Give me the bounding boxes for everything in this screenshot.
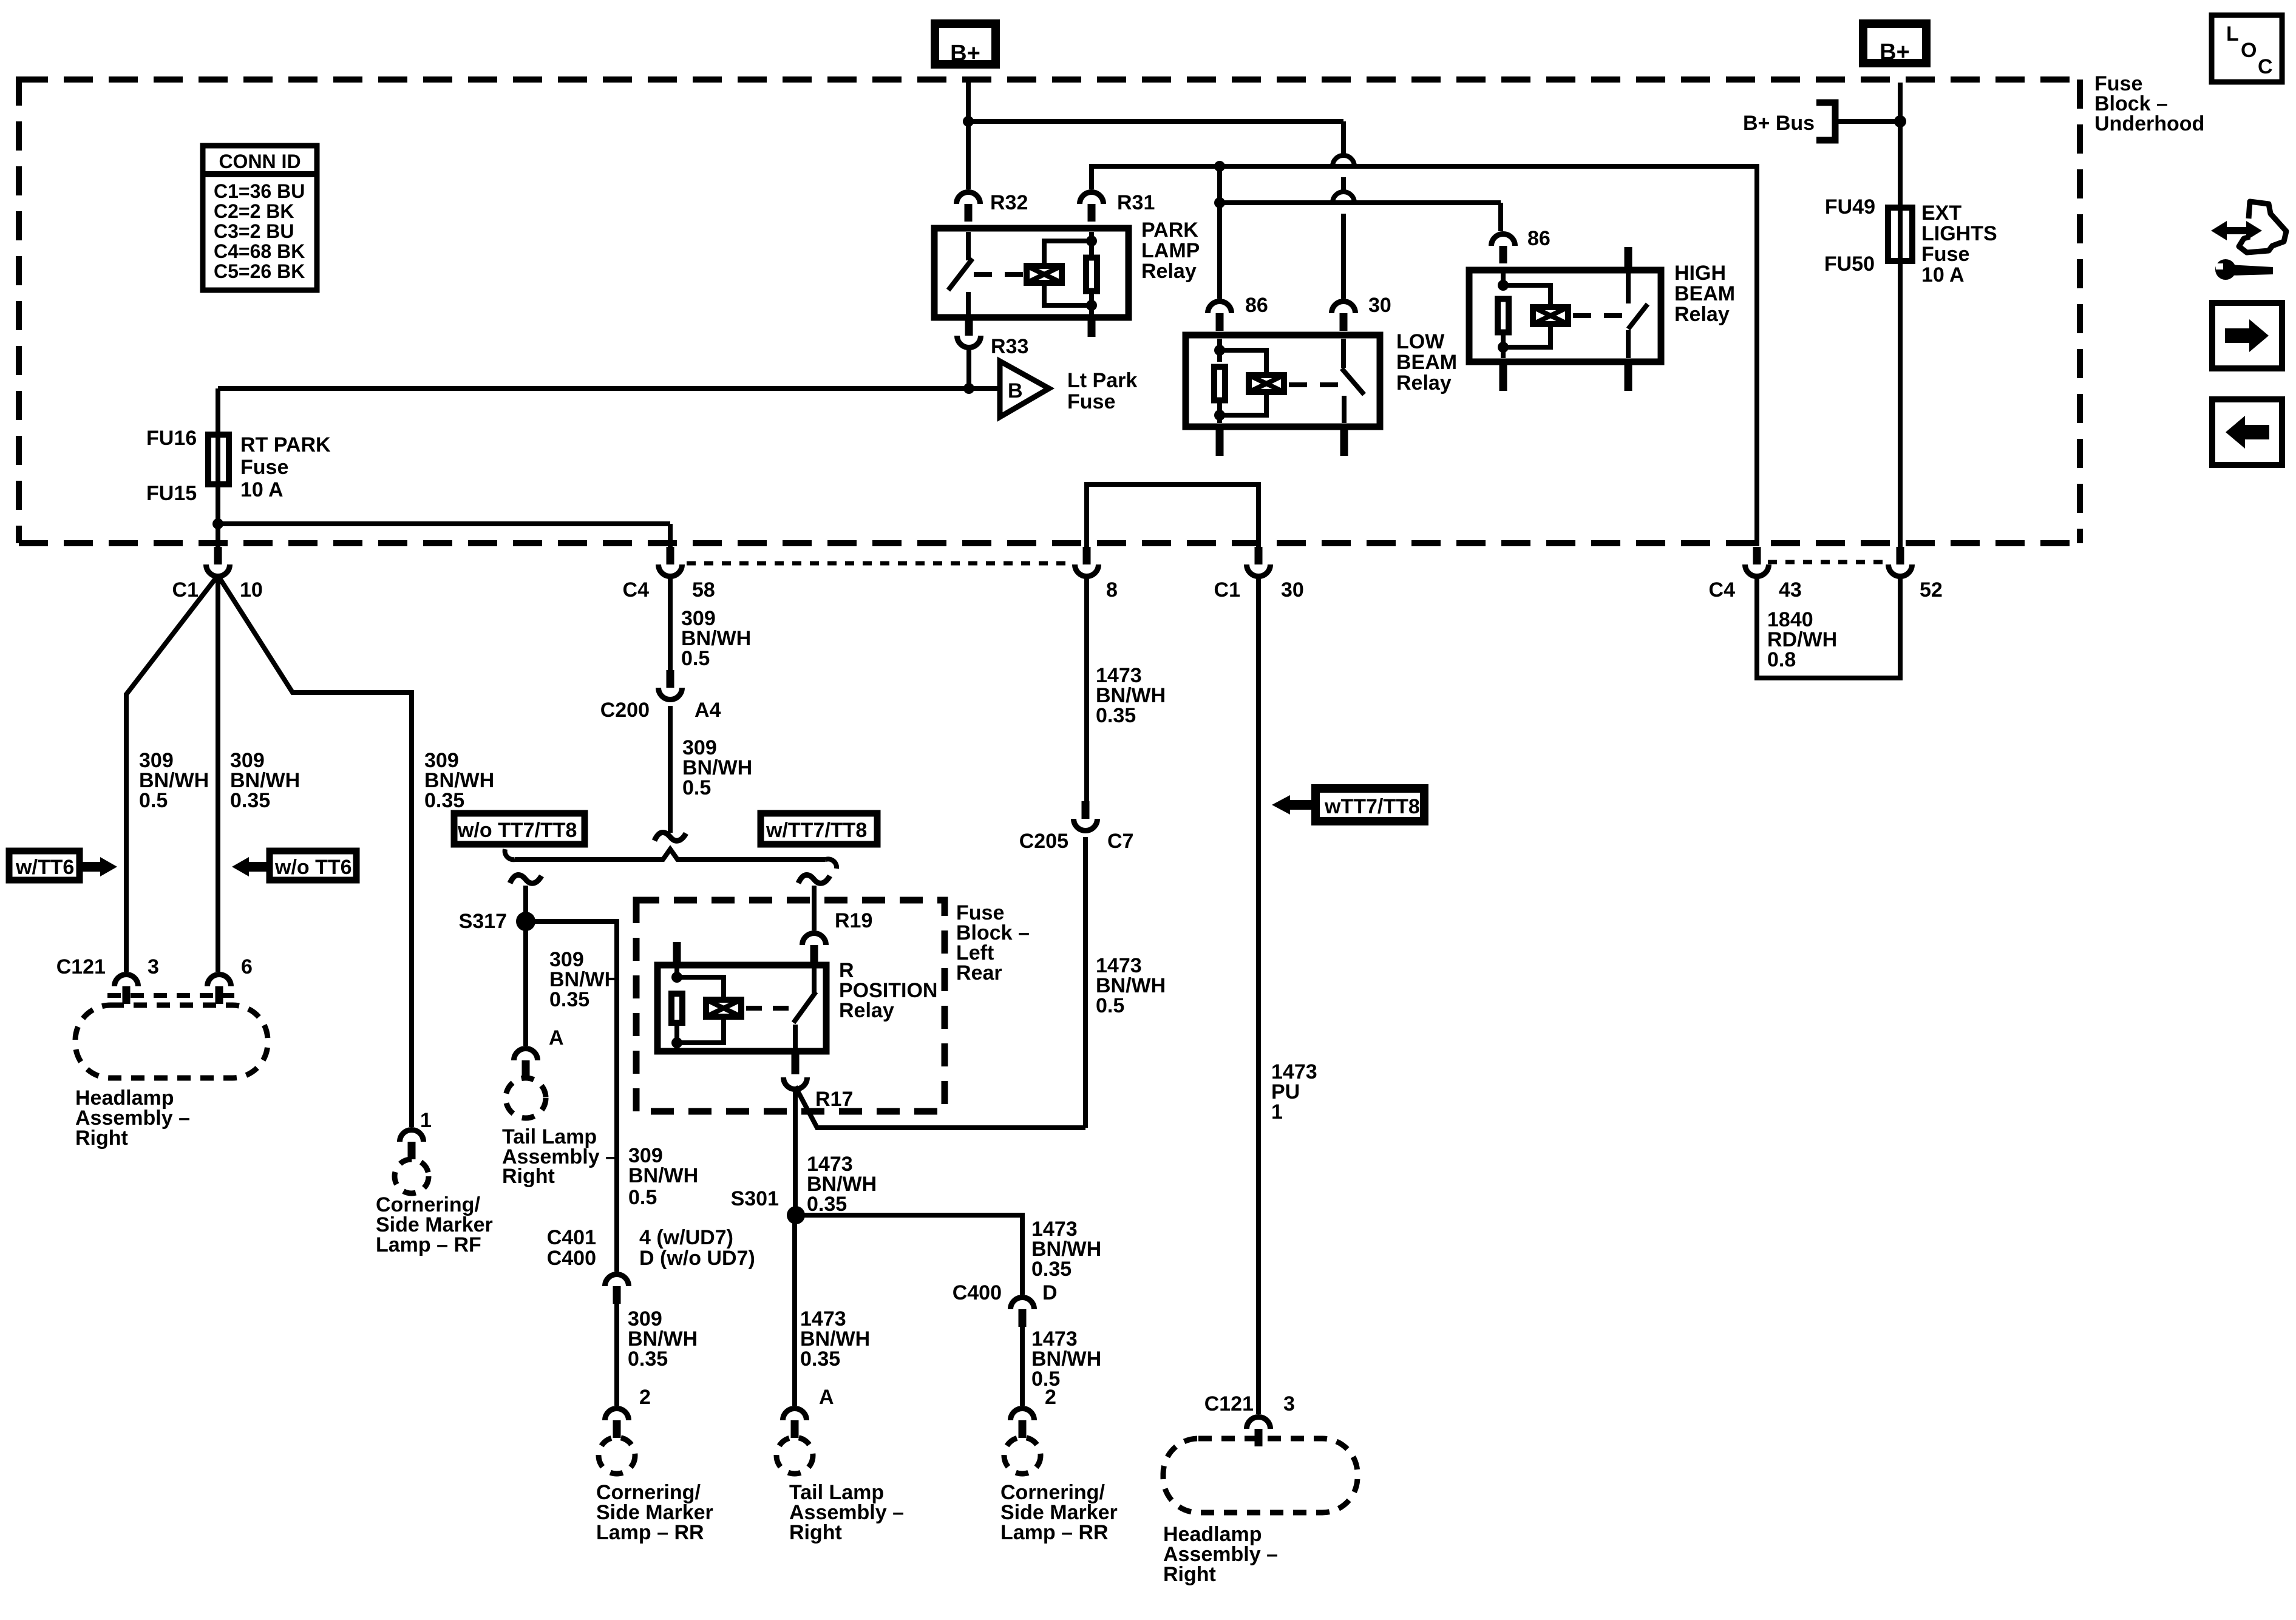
svg-text:10 A: 10 A	[240, 478, 284, 501]
svg-text:3: 3	[1283, 1392, 1295, 1415]
svg-text:S317: S317	[459, 910, 507, 933]
svg-text:FU49: FU49	[1825, 195, 1875, 219]
svg-text:R33: R33	[991, 335, 1028, 358]
svg-text:C4=68 BK: C4=68 BK	[214, 240, 305, 262]
svg-text:Relay: Relay	[839, 999, 894, 1022]
svg-text:HIGH: HIGH	[1674, 262, 1726, 285]
svg-text:86: 86	[1527, 227, 1550, 250]
svg-text:A: A	[819, 1386, 834, 1409]
svg-text:FU50: FU50	[1824, 252, 1875, 276]
svg-text:C1=36 BU: C1=36 BU	[214, 180, 305, 202]
svg-text:0.35: 0.35	[424, 789, 464, 812]
svg-text:4 (w/UD7): 4 (w/UD7)	[639, 1226, 733, 1249]
svg-text:C200: C200	[600, 699, 650, 722]
svg-text:Lamp – RR: Lamp – RR	[596, 1521, 704, 1544]
svg-text:A: A	[549, 1026, 564, 1049]
svg-text:10 A: 10 A	[1921, 263, 1965, 286]
svg-text:0.35: 0.35	[230, 789, 270, 812]
svg-text:B+: B+	[950, 41, 980, 66]
svg-text:L: L	[2226, 22, 2239, 46]
svg-text:0.35: 0.35	[807, 1193, 847, 1216]
svg-text:Underhood: Underhood	[2094, 112, 2204, 135]
svg-text:Relay: Relay	[1674, 303, 1730, 326]
svg-text:C4: C4	[1709, 578, 1736, 602]
svg-text:C5=26 BK: C5=26 BK	[214, 260, 305, 282]
svg-text:0.35: 0.35	[549, 988, 589, 1011]
svg-text:R17: R17	[815, 1088, 853, 1111]
svg-text:O: O	[2241, 39, 2257, 62]
svg-text:C401: C401	[547, 1226, 596, 1249]
svg-text:0.35: 0.35	[1031, 1258, 1072, 1281]
svg-text:FU15: FU15	[146, 482, 197, 505]
svg-text:6: 6	[241, 955, 253, 978]
svg-text:BEAM: BEAM	[1674, 282, 1735, 305]
svg-text:B: B	[1008, 379, 1023, 402]
svg-text:1: 1	[1271, 1100, 1283, 1123]
svg-text:43: 43	[1779, 578, 1802, 602]
svg-text:w/TT6: w/TT6	[15, 856, 74, 879]
svg-text:R31: R31	[1117, 191, 1155, 214]
svg-text:86: 86	[1245, 294, 1268, 317]
svg-text:LOW: LOW	[1396, 330, 1445, 353]
svg-text:C400: C400	[547, 1247, 596, 1270]
svg-text:C1: C1	[1214, 578, 1240, 602]
svg-text:3: 3	[148, 955, 159, 978]
svg-text:RT PARK: RT PARK	[240, 433, 331, 456]
svg-text:Fuse: Fuse	[1921, 243, 1969, 266]
svg-text:1: 1	[420, 1109, 432, 1132]
svg-text:Relay: Relay	[1141, 260, 1197, 283]
svg-text:C400: C400	[953, 1281, 1002, 1304]
svg-text:Right: Right	[1163, 1563, 1216, 1586]
svg-text:R19: R19	[835, 909, 872, 932]
svg-text:Fuse: Fuse	[240, 456, 288, 479]
svg-text:w/o TT6: w/o TT6	[274, 856, 352, 879]
svg-text:Fuse: Fuse	[1067, 390, 1115, 413]
svg-text:EXT: EXT	[1921, 202, 1961, 225]
svg-text:BEAM: BEAM	[1396, 351, 1457, 374]
svg-text:2: 2	[639, 1386, 651, 1409]
svg-text:C2=2 BK: C2=2 BK	[214, 200, 294, 222]
svg-text:FU16: FU16	[146, 427, 197, 450]
svg-text:C205: C205	[1019, 830, 1068, 853]
svg-text:B+ Bus: B+ Bus	[1743, 112, 1815, 135]
svg-text:R32: R32	[990, 191, 1028, 214]
svg-text:C4: C4	[623, 578, 650, 602]
svg-text:0.35: 0.35	[800, 1347, 840, 1371]
svg-text:2: 2	[1045, 1386, 1056, 1409]
svg-text:D (w/o UD7): D (w/o UD7)	[639, 1247, 755, 1270]
svg-text:Lamp – RF: Lamp – RF	[376, 1233, 481, 1256]
svg-text:D: D	[1042, 1281, 1058, 1304]
svg-text:Right: Right	[502, 1165, 555, 1188]
svg-text:Right: Right	[75, 1127, 128, 1150]
svg-text:LAMP: LAMP	[1141, 239, 1200, 262]
svg-text:S301: S301	[731, 1187, 779, 1210]
svg-text:A4: A4	[695, 699, 721, 722]
svg-text:0.8: 0.8	[1767, 648, 1796, 671]
svg-text:0.5: 0.5	[681, 647, 710, 670]
svg-text:8: 8	[1106, 578, 1118, 602]
svg-text:0.35: 0.35	[1096, 704, 1136, 727]
svg-text:0.35: 0.35	[628, 1347, 668, 1371]
svg-text:30: 30	[1281, 578, 1304, 602]
svg-text:0.5: 0.5	[1096, 994, 1124, 1017]
svg-text:0.5: 0.5	[628, 1186, 657, 1209]
svg-text:Rear: Rear	[956, 961, 1002, 985]
svg-text:Right: Right	[789, 1521, 842, 1544]
svg-text:58: 58	[692, 578, 715, 602]
svg-text:C: C	[2258, 55, 2273, 78]
svg-text:C121: C121	[1204, 1392, 1254, 1415]
svg-text:BN/WH: BN/WH	[628, 1164, 698, 1187]
svg-text:CONN ID: CONN ID	[219, 151, 301, 172]
svg-text:LIGHTS: LIGHTS	[1921, 222, 1997, 245]
svg-text:wTT7/TT8: wTT7/TT8	[1324, 795, 1420, 818]
svg-text:0.5: 0.5	[139, 789, 168, 812]
svg-text:Lamp – RR: Lamp – RR	[1000, 1521, 1109, 1544]
svg-text:C7: C7	[1107, 830, 1133, 853]
svg-text:C121: C121	[56, 955, 106, 978]
svg-text:C1: C1	[172, 578, 199, 602]
svg-text:10: 10	[240, 578, 263, 602]
svg-text:Lt Park: Lt Park	[1067, 369, 1137, 392]
svg-text:PARK: PARK	[1141, 219, 1198, 242]
svg-text:w/o TT7/TT8: w/o TT7/TT8	[457, 819, 577, 842]
svg-text:52: 52	[1920, 578, 1943, 602]
svg-text:w/TT7/TT8: w/TT7/TT8	[766, 819, 867, 842]
svg-text:B+: B+	[1880, 39, 1910, 65]
svg-text:Relay: Relay	[1396, 371, 1452, 395]
svg-text:30: 30	[1368, 294, 1391, 317]
svg-text:0.5: 0.5	[682, 776, 711, 799]
svg-text:C3=2 BU: C3=2 BU	[214, 220, 294, 242]
